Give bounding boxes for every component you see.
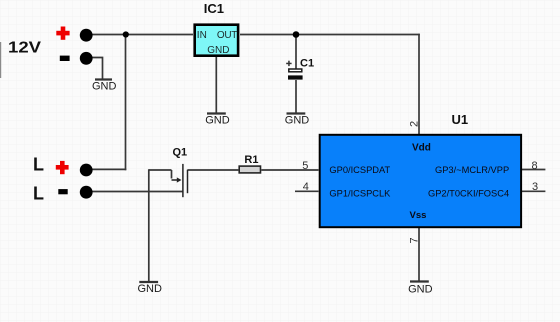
svg-text:5: 5 bbox=[302, 160, 308, 172]
svg-text:GND: GND bbox=[207, 45, 229, 56]
svg-text:Vdd: Vdd bbox=[412, 143, 431, 154]
svg-text:4: 4 bbox=[303, 181, 309, 193]
svg-text:Q1: Q1 bbox=[173, 146, 188, 158]
svg-text:GP1/ICSPCLK: GP1/ICSPCLK bbox=[329, 188, 391, 198]
svg-text:L: L bbox=[33, 184, 44, 204]
svg-text:L: L bbox=[33, 155, 44, 175]
svg-text:GND: GND bbox=[408, 283, 433, 295]
svg-text:GND: GND bbox=[205, 115, 230, 127]
svg-text:GP0/ICSPDAT: GP0/ICSPDAT bbox=[329, 165, 390, 175]
svg-text:IC1: IC1 bbox=[204, 1, 224, 16]
svg-text:R1: R1 bbox=[244, 154, 258, 166]
svg-text:2: 2 bbox=[408, 121, 420, 127]
svg-text:GND: GND bbox=[138, 283, 163, 295]
svg-text:OUT: OUT bbox=[217, 30, 237, 41]
svg-text:IN: IN bbox=[197, 30, 207, 41]
svg-text:7: 7 bbox=[409, 237, 421, 243]
svg-text:GP2/T0CKI/FOSC4: GP2/T0CKI/FOSC4 bbox=[428, 188, 509, 198]
svg-text:GND: GND bbox=[285, 115, 310, 127]
svg-text:GND: GND bbox=[92, 81, 117, 93]
svg-text:8: 8 bbox=[532, 160, 538, 172]
svg-text:U1: U1 bbox=[452, 112, 469, 127]
svg-text:12V: 12V bbox=[8, 40, 41, 57]
svg-text:GP3/~MCLR/VPP: GP3/~MCLR/VPP bbox=[435, 165, 509, 175]
svg-text:3: 3 bbox=[532, 181, 538, 193]
svg-text:Vss: Vss bbox=[410, 210, 427, 221]
svg-text:C1: C1 bbox=[300, 58, 314, 70]
